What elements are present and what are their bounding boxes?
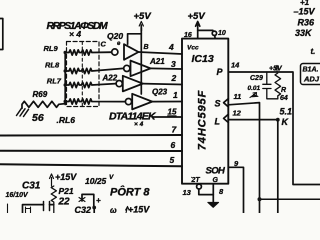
svg-text:PÔRT 8: PÔRT 8 [110, 186, 150, 199]
svg-text:74HC595F: 74HC595F [196, 90, 208, 150]
svg-text:RL9: RL9 [44, 44, 59, 53]
svg-text:10: 10 [218, 30, 226, 37]
svg-text:+15V: +15V [128, 205, 150, 214]
resistor RL8 pair row2 [65, 68, 123, 73]
wire pin11 [228, 103, 259, 213]
resistor RL6 pair row4 [65, 99, 125, 104]
ground IC13 [208, 202, 219, 207]
node C [101, 40, 107, 49]
transistor Q20 [112, 44, 139, 60]
annotation arrow [250, 93, 257, 98]
wire pin2 [143, 83, 182, 86]
op-amp U1 : IC13 74HC595F box [182, 39, 228, 184]
pin 5 [170, 155, 175, 165]
pin 2 [171, 73, 177, 83]
svg-text:22: 22 [58, 197, 71, 208]
svg-text:t.: t. [311, 47, 316, 56]
capacitor C32 wire [82, 194, 94, 207]
pin 13 bubble [197, 184, 202, 189]
svg-text:33K: 33K [295, 28, 313, 38]
svg-text:C32: C32 [75, 205, 92, 213]
wire +5V arrow left [140, 25, 142, 31]
svg-text:SOH: SOH [206, 166, 227, 177]
svg-text:10/25: 10/25 [85, 176, 107, 186]
wire pin7 [0, 134, 182, 137]
svg-text:+5V: +5V [134, 11, 152, 22]
svg-text:B: B [144, 44, 149, 51]
pin 3 [171, 59, 176, 69]
svg-text:16/10V: 16/10V [6, 192, 30, 199]
svg-text:A21: A21 [149, 57, 165, 66]
svg-text:R: R [281, 87, 286, 94]
label Q20 [107, 31, 123, 47]
svg-text:0.01: 0.01 [248, 85, 261, 92]
pin 8 wire [212, 184, 214, 203]
svg-text:ω: ω [110, 206, 117, 213]
label PORT 8 [110, 186, 150, 199]
svg-text:P: P [217, 67, 224, 77]
resistor RL9 pair row1 [65, 50, 111, 55]
resistor R69 [22, 101, 65, 108]
node K [276, 118, 280, 122]
svg-text:R36: R36 [298, 18, 316, 28]
svg-text:+5V: +5V [188, 11, 206, 22]
svg-text:5: 5 [170, 155, 175, 165]
svg-text:IC13: IC13 [192, 53, 214, 65]
svg-text:1: 1 [173, 90, 178, 100]
svg-text:A22: A22 [102, 74, 118, 83]
pin 11 [234, 92, 242, 101]
clock wedge L [224, 114, 229, 122]
label RL7 [47, 77, 62, 86]
svg-text:.RL6: .RL6 [57, 115, 76, 125]
transistor Q22 [116, 76, 143, 92]
wire pin12 [228, 119, 277, 121]
svg-text:B1A.: B1A. [303, 67, 319, 74]
value 56 [32, 112, 44, 124]
svg-text:5.1: 5.1 [280, 107, 293, 117]
svg-text:16: 16 [184, 32, 192, 39]
label RL6 [57, 115, 76, 125]
wire pin14 to bias rail [228, 72, 320, 185]
+5V supply bias [269, 66, 283, 73]
left edge partial component box [0, 19, 3, 50]
svg-text:Vcc: Vcc [187, 45, 199, 52]
wire pin6 [0, 150, 182, 152]
label R69 [33, 90, 48, 99]
svg-text:11: 11 [234, 92, 242, 101]
small marks [26, 207, 31, 213]
+5V supply left [134, 11, 152, 22]
capacitor C29 [263, 72, 278, 99]
+15V supply [55, 172, 77, 182]
wire pin4 [139, 52, 183, 54]
label IC13 [184, 32, 226, 184]
+5V supply top [188, 11, 206, 22]
svg-text:C: C [101, 40, 107, 49]
wire branch to Q20 emitter [128, 34, 142, 44]
transistor Q23 [125, 94, 152, 110]
pin 9 [234, 159, 239, 168]
svg-text:R69: R69 [33, 90, 48, 99]
pin 1 [173, 90, 178, 100]
node row1 [63, 51, 66, 54]
label B [144, 44, 149, 51]
label -15V R36 33K [294, 0, 316, 56]
wire pin1 [152, 101, 182, 103]
svg-text:V: V [109, 174, 114, 181]
svg-text:DTA114EK: DTA114EK [109, 111, 157, 123]
capacitor C31 [6, 181, 41, 200]
wire emitter rail [140, 28, 142, 94]
label Q22 [102, 74, 118, 83]
label box BIA ADJ [301, 64, 320, 85]
label RL9 [44, 44, 59, 53]
ground R69 [17, 108, 29, 116]
resistor R64 [275, 73, 281, 99]
svg-text:4: 4 [168, 42, 174, 52]
svg-text:14: 14 [231, 61, 240, 70]
transistor Q21 [124, 61, 151, 77]
svg-text:15: 15 [168, 108, 177, 117]
wire R64 branch down [277, 120, 279, 213]
svg-text:13: 13 [183, 188, 192, 197]
clock wedge S [224, 99, 229, 107]
svg-text:–15V: –15V [294, 7, 316, 17]
wire pin15 [152, 116, 182, 118]
svg-text:+15V: +15V [55, 172, 77, 182]
label DTA114EK [109, 111, 157, 129]
svg-text:RL7: RL7 [47, 77, 62, 86]
pin 12 [233, 109, 242, 118]
wire left common bus of network [64, 53, 66, 105]
resistor R21 [51, 186, 56, 213]
svg-text:2T: 2T [191, 177, 201, 184]
resistor RL7 pair row3 [65, 82, 116, 87]
svg-text:64: 64 [280, 95, 288, 102]
svg-text:ADJ: ADJ [303, 75, 320, 84]
node row4 [63, 100, 66, 103]
pin 7 [172, 125, 178, 135]
pin 15 [168, 108, 177, 117]
svg-text:2: 2 [171, 73, 177, 83]
svg-text:C31: C31 [22, 181, 41, 192]
svg-text:3: 3 [171, 59, 176, 69]
svg-text:L: L [215, 117, 221, 127]
node bottom [258, 197, 262, 201]
label RL8 [45, 60, 60, 69]
node row2 [63, 69, 66, 72]
wire pin9 SOH [228, 167, 243, 213]
pin 4 [168, 42, 174, 52]
node row3 [63, 83, 66, 86]
svg-text:+: + [96, 196, 101, 205]
svg-text:56: 56 [32, 112, 44, 124]
label 10/25V [85, 174, 114, 186]
wire bottom bus [260, 198, 320, 200]
resistor network label RRPS1A SDM [47, 21, 109, 39]
svg-text:× 4: × 4 [69, 29, 81, 39]
resistor network dashed box [67, 42, 100, 107]
svg-text:× 4: × 4 [134, 121, 144, 128]
pin 14 [231, 61, 240, 70]
svg-text:12: 12 [233, 109, 242, 118]
label Q23 [152, 88, 168, 97]
arrow on S wire [252, 94, 259, 96]
wire +5V to pin16 and pin10 [196, 22, 200, 31]
svg-text:S: S [215, 99, 221, 109]
pin 6 [171, 140, 176, 150]
wire pin5 [0, 164, 182, 166]
wire pin3 [151, 67, 183, 70]
pin 10 loop [212, 31, 216, 35]
svg-text:C29: C29 [250, 75, 263, 82]
svg-text:RL8: RL8 [45, 60, 60, 69]
+15V label bottom [110, 205, 150, 216]
svg-text:Q20: Q20 [107, 31, 123, 41]
label Q21 [149, 57, 165, 66]
svg-text:P21: P21 [59, 186, 74, 196]
svg-text:Q23: Q23 [152, 88, 168, 97]
svg-text:6: 6 [171, 140, 176, 150]
